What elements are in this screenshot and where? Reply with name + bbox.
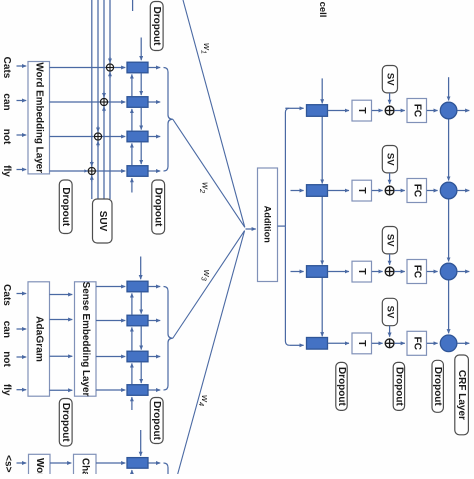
svg-text:fly: fly xyxy=(1,165,12,177)
svg-text:SV: SV xyxy=(384,234,395,247)
svg-text:<s>: <s> xyxy=(3,455,14,472)
svg-text:Char Embedding Layer: Char Embedding Layer xyxy=(80,458,91,474)
svg-text:SUV: SUV xyxy=(97,211,108,232)
svg-text:T: T xyxy=(356,340,368,347)
svg-text:Cats: Cats xyxy=(1,57,12,79)
svg-text:Dropout: Dropout xyxy=(153,188,164,228)
svg-text:SV: SV xyxy=(384,153,395,166)
svg-text:FC: FC xyxy=(411,104,422,117)
svg-text:Dropout: Dropout xyxy=(60,187,71,227)
svg-text:Sense Embedding Layer: Sense Embedding Layer xyxy=(80,282,91,397)
svg-text:cell: cell xyxy=(317,2,328,18)
svg-text:Cats: Cats xyxy=(1,284,12,306)
svg-text:Dropout: Dropout xyxy=(336,367,347,407)
svg-text:Addition: Addition xyxy=(263,206,273,244)
svg-text:fly: fly xyxy=(1,384,12,396)
svg-text:AdaGram: AdaGram xyxy=(33,316,44,362)
svg-text:Dropout: Dropout xyxy=(60,403,71,443)
svg-text:Word Embedding Layer: Word Embedding Layer xyxy=(34,458,45,474)
svg-text:Dropout: Dropout xyxy=(151,401,162,441)
svg-text:not: not xyxy=(1,129,12,145)
svg-text:not: not xyxy=(1,351,12,367)
svg-text:can: can xyxy=(1,93,12,110)
svg-text:T: T xyxy=(356,187,368,194)
svg-text:FC: FC xyxy=(411,184,422,197)
svg-text:FC: FC xyxy=(411,337,422,350)
svg-text:Word Embedding Layer: Word Embedding Layer xyxy=(33,62,44,173)
svg-text:Dropout: Dropout xyxy=(151,7,162,47)
svg-text:can: can xyxy=(1,321,12,338)
svg-text:T: T xyxy=(356,107,368,114)
svg-text:T: T xyxy=(356,268,368,275)
svg-text:Dropout: Dropout xyxy=(432,367,443,407)
svg-text:CRF Layer: CRF Layer xyxy=(456,370,467,420)
svg-text:FC: FC xyxy=(411,265,422,278)
svg-text:SV: SV xyxy=(384,306,395,319)
svg-text:Dropout: Dropout xyxy=(393,367,404,407)
svg-text:SV: SV xyxy=(384,73,395,86)
